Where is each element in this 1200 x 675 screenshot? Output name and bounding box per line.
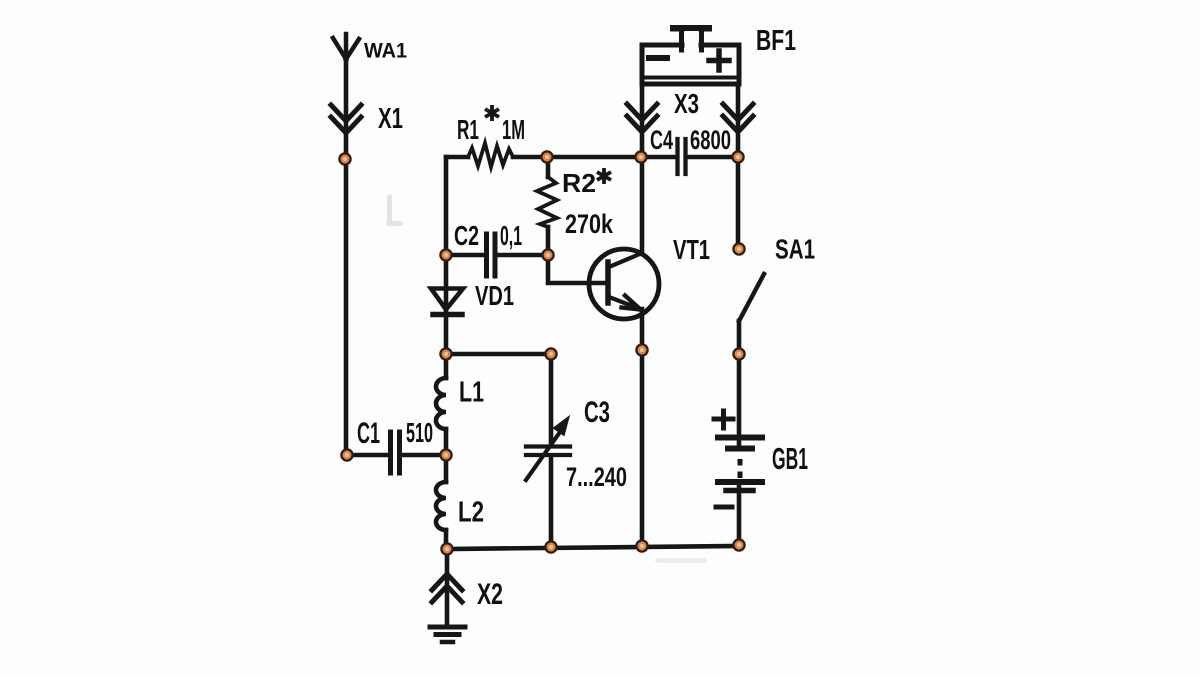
wire bottom rail bbox=[446, 546, 740, 549]
node C4 right bbox=[732, 151, 743, 162]
node C2 left bbox=[440, 249, 451, 260]
node dots layer bbox=[339, 151, 744, 554]
wire antenna down lead bbox=[344, 56, 349, 455]
node SA1 top bbox=[733, 243, 744, 254]
svg-text:C1: C1 bbox=[357, 417, 380, 450]
node C2 right bbox=[542, 249, 553, 260]
node emitter mid bbox=[636, 344, 647, 355]
svg-text:WA1: WA1 bbox=[364, 40, 407, 63]
resistor R1 bbox=[446, 143, 547, 167]
variable capacitor C3 bbox=[526, 354, 570, 546]
capacitor C1 bbox=[347, 432, 446, 473]
node SA1 bottom bbox=[733, 348, 744, 359]
svg-text:X2: X2 bbox=[477, 578, 503, 611]
svg-text:VT1: VT1 bbox=[673, 234, 710, 265]
svg-text:510: 510 bbox=[406, 417, 433, 448]
wire emitter bbox=[640, 309, 645, 546]
node top rail at R2 bbox=[541, 151, 552, 162]
node bottom emitter bbox=[636, 540, 647, 551]
node bottom L2 bbox=[441, 543, 452, 554]
svg-text:SA1: SA1 bbox=[775, 234, 815, 265]
svg-text:L1: L1 bbox=[459, 377, 484, 409]
connector X1 bbox=[331, 105, 361, 133]
capacitor C4 bbox=[678, 139, 686, 174]
wire BF1 right lead bbox=[736, 84, 741, 157]
svg-text:R1: R1 bbox=[457, 114, 479, 145]
svg-text:L2: L2 bbox=[458, 497, 484, 529]
svg-text:C2: C2 bbox=[454, 220, 479, 251]
connector X3 right bbox=[723, 104, 753, 132]
ground bbox=[430, 627, 465, 642]
svg-text:C4: C4 bbox=[650, 125, 673, 155]
connector X2 bbox=[432, 549, 462, 623]
inductor L2 bbox=[436, 455, 446, 549]
svg-text:7...240: 7...240 bbox=[566, 462, 627, 492]
node C1 right / L1-L2 junction bbox=[440, 449, 451, 460]
wire left vertical R1 corner to C2 bbox=[444, 157, 449, 255]
node antenna/X1 junction bbox=[339, 153, 350, 164]
svg-text:R2: R2 bbox=[562, 168, 596, 198]
node right at y354 bbox=[545, 348, 556, 359]
svg-text:6800: 6800 bbox=[690, 125, 731, 155]
svg-text:X1: X1 bbox=[378, 103, 403, 135]
battery GB1 bbox=[714, 354, 762, 545]
svg-text:GB1: GB1 bbox=[772, 441, 808, 476]
svg-text:1M: 1M bbox=[502, 114, 525, 145]
svg-text:BF1: BF1 bbox=[756, 25, 796, 57]
label R2 asterisk bbox=[597, 168, 611, 184]
connector X3 left bbox=[627, 104, 657, 132]
wire base of VT1 bbox=[548, 255, 604, 283]
svg-text:VD1: VD1 bbox=[475, 280, 514, 311]
node left at y354 bbox=[440, 348, 451, 359]
wire y354 rail bbox=[446, 352, 551, 357]
wire BF1 left lead bbox=[640, 84, 645, 157]
diode VD1 bbox=[431, 255, 463, 354]
node C1 left bbox=[341, 449, 352, 460]
svg-text:X3: X3 bbox=[674, 88, 699, 119]
earphone BF1 bbox=[642, 25, 739, 84]
svg-text:0,1: 0,1 bbox=[500, 220, 522, 251]
inductor L1 bbox=[436, 354, 446, 455]
wire top rail R1 to C4 bbox=[547, 155, 676, 160]
node bottom battery bbox=[733, 539, 744, 550]
switch SA1 bbox=[738, 157, 764, 354]
antenna WA1 bbox=[333, 34, 359, 60]
label R1 asterisk bbox=[485, 105, 499, 121]
node bottom C3 bbox=[545, 541, 556, 552]
transistor VT1 bbox=[589, 249, 659, 319]
wire C4 right to node bbox=[688, 155, 738, 160]
capacitor C2 bbox=[446, 234, 548, 276]
resistor R2 bbox=[537, 157, 557, 255]
svg-text:270k: 270k bbox=[565, 209, 614, 239]
wire collector bbox=[640, 157, 645, 254]
node C4 left bbox=[635, 151, 646, 162]
svg-text:C3: C3 bbox=[584, 396, 610, 429]
